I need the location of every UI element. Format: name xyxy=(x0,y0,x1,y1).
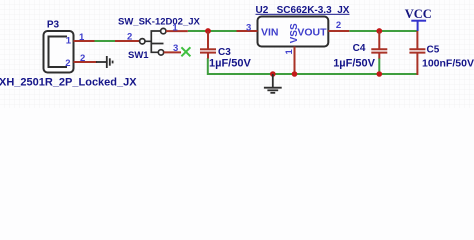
svg-text:C4: C4 xyxy=(353,43,366,54)
junction dot at C3 / VIN wire xyxy=(205,28,211,34)
capacitor C3 xyxy=(200,31,216,59)
U2 VSS pin 1 stub xyxy=(294,47,296,75)
wire net from P3 pin1 to SW1 pin2 xyxy=(95,40,116,42)
capacitor C4 xyxy=(371,31,387,59)
svg-text:1: 1 xyxy=(79,32,85,43)
svg-text:XH_2501R_2P_Locked_JX: XH_2501R_2P_Locked_JX xyxy=(0,76,137,88)
power flag VCC xyxy=(411,21,426,31)
P3 pin 2 stub xyxy=(74,61,98,63)
ground symbol below rail xyxy=(264,74,282,93)
svg-text:C3: C3 xyxy=(218,47,231,58)
svg-text:SW_SK-12D02_JX: SW_SK-12D02_JX xyxy=(118,16,201,27)
svg-text:P3: P3 xyxy=(47,20,60,31)
svg-text:1µF/50V: 1µF/50V xyxy=(333,58,375,70)
svg-text:1µF/50V: 1µF/50V xyxy=(209,58,251,70)
svg-text:VCC: VCC xyxy=(405,7,432,21)
U2 VIN pin 3 stub xyxy=(237,30,258,32)
no-connect cross on SW1 pin 3 xyxy=(181,47,190,56)
ground (sideways) at P3 pin 2 xyxy=(96,56,113,68)
svg-text:1: 1 xyxy=(284,49,295,55)
svg-text:1: 1 xyxy=(172,22,178,33)
svg-text:3: 3 xyxy=(246,22,251,33)
svg-text:2: 2 xyxy=(80,53,85,64)
junction dot at VOUT / C4 xyxy=(376,28,382,34)
svg-text:U2 SC662K-3.3_JX: U2 SC662K-3.3_JX xyxy=(256,5,350,16)
switch SW1 pin 3 stub xyxy=(164,51,181,53)
svg-text:1: 1 xyxy=(66,35,72,46)
svg-text:VSS: VSS xyxy=(289,23,300,43)
wire C4 bottom lead xyxy=(378,58,380,75)
svg-text:3: 3 xyxy=(173,43,178,54)
svg-text:SW1: SW1 xyxy=(128,50,149,61)
junction dot ground symbol at rail xyxy=(270,71,276,77)
svg-text:VIN: VIN xyxy=(261,26,279,38)
switch SW1 body xyxy=(140,28,166,55)
P3 pin 1 stub xyxy=(74,40,95,42)
junction dot VSS at ground rail xyxy=(292,71,298,77)
svg-text:VOUT: VOUT xyxy=(297,26,327,38)
wire net from U2 VOUT to VCC xyxy=(349,30,417,32)
svg-text:C5: C5 xyxy=(427,45,440,56)
capacitor C5 xyxy=(409,31,425,75)
switch SW1 pin 2 stub xyxy=(115,40,140,42)
svg-text:2: 2 xyxy=(65,58,70,69)
svg-text:2: 2 xyxy=(336,20,341,31)
switch SW1 pin 1 stub xyxy=(166,30,188,32)
svg-text:100nF/50V: 100nF/50V xyxy=(422,58,474,70)
IC U2 regulator xyxy=(258,17,329,47)
connector P3 xyxy=(44,31,74,73)
wire net from SW1 pin1 to U2 VIN xyxy=(188,30,237,32)
wire C3 bottom lead xyxy=(207,58,209,75)
wire ground rail xyxy=(208,73,418,75)
svg-text:2: 2 xyxy=(127,32,132,43)
U2 VOUT pin 2 stub xyxy=(328,30,349,32)
junction dot at C4 bottom / rail xyxy=(377,71,383,77)
